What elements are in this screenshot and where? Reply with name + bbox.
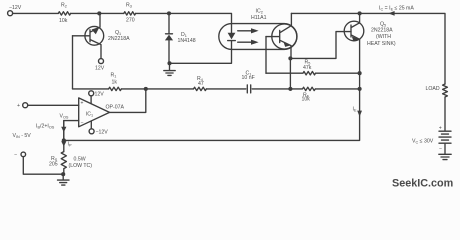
svg-text:VIN - 5V: VIN - 5V [13,133,32,139]
svg-text:−12V: −12V [96,129,109,135]
junction node RS bottom [61,172,65,176]
svg-text:1N4148: 1N4148 [178,38,196,44]
current arrow Ic on rail [388,11,394,16]
svg-text:1k: 1k [112,79,118,85]
svg-text:Q1: Q1 [115,30,121,36]
svg-text:−: − [81,120,84,126]
svg-text:H11A1: H11A1 [251,15,267,21]
opto-coupler IC2 stadium [219,24,297,50]
resistor R1 [109,87,122,90]
svg-text:−: − [439,146,442,152]
svg-text:+: + [17,103,20,109]
svg-text:+: + [439,126,442,132]
wire main row [73,88,291,90]
svg-text:270: 270 [126,18,135,24]
junction node rail D1 [167,11,171,15]
svg-text:VOS: VOS [60,114,69,120]
Q5 emitter arrow [352,36,359,41]
resistor R4 [194,87,207,90]
current arrow IE [357,111,362,117]
junction node rail Q1 [97,11,101,15]
svg-text:R1: R1 [111,73,117,79]
svg-text:Q5: Q5 [380,21,386,27]
junction node feedback [62,138,66,142]
resistor R5 [266,72,360,75]
wire top rail right [291,13,445,84]
diode D1 triangle [165,35,173,41]
wire inverting input [64,121,79,141]
junction node main wire opto [288,87,292,91]
terminal op-amp +12V [89,91,94,96]
opto arrows [238,31,252,42]
svg-text:10k: 10k [302,97,311,103]
resistor R2 [58,12,70,15]
svg-text:+: + [81,101,84,107]
current arrow IB/2+IOS [61,127,66,133]
svg-text:R3: R3 [126,3,132,9]
opto LED [228,40,236,42]
diode D1 [166,13,173,63]
terminal - input [21,152,26,157]
svg-text:2N2218A: 2N2218A [108,36,130,42]
opto LED triangle [228,33,236,40]
svg-text:−12V: −12V [9,5,22,11]
svg-text:10 nF: 10 nF [242,75,255,81]
wire opto emitter to Q5 base [290,32,351,59]
opto phototransistor [272,24,297,49]
resistor RS [61,152,66,175]
svg-text:12V: 12V [95,91,105,97]
svg-text:−: − [14,152,17,158]
wire top rail left [13,13,232,33]
transistor Q5 [344,21,364,41]
terminal + input [23,103,28,108]
svg-text:10k: 10k [59,18,68,24]
capacitor C1 [247,85,250,93]
wire D1 ground node to LED cathode [170,41,232,63]
svg-text:R2: R2 [61,3,67,9]
wire op-amp power bottom [90,121,92,129]
opto arrow heads [251,28,259,33]
junction node D1 ground [167,61,171,65]
junction node opto emitter [288,56,292,60]
ground battery [439,154,451,159]
junction node R6 right [358,87,362,91]
terminal op-amp -12V [89,129,94,134]
wire inverting node down [63,121,65,152]
wire negative terminal [23,157,63,175]
svg-text:(LOW TC): (LOW TC) [69,163,93,169]
svg-text:IC1: IC1 [86,112,93,118]
wire opto emitter down to main wire [289,58,291,89]
svg-text:HEAT SINK): HEAT SINK) [367,41,396,47]
junction node R5 right [358,71,362,75]
svg-text:12V: 12V [95,66,105,72]
svg-text:205: 205 [49,161,58,167]
svg-text:IC = IE ≤ 25 mA: IC = IE ≤ 25 mA [379,5,414,11]
terminal -12V [8,11,13,16]
junction node rail Q5 [358,11,362,15]
svg-text:IP: IP [68,142,72,148]
svg-text:VC ≤ 30V: VC ≤ 30V [412,138,434,144]
current arrow IP [61,141,66,146]
svg-text:OP-07A: OP-07A [106,104,125,110]
svg-text:LOAD: LOAD [426,86,440,92]
ground [164,63,175,75]
wire non-inverting input [28,104,79,106]
resistor LOAD [443,84,448,131]
svg-text:IC2: IC2 [256,9,263,15]
wire Q5 emitter down and feedback to inverting node [64,39,360,140]
svg-text:(WITH: (WITH [376,34,391,40]
op-amp U1 OP-07A [79,98,110,127]
svg-text:2N2218A: 2N2218A [371,27,393,33]
svg-text:IE: IE [353,107,357,113]
wire op-amp power top [90,96,92,104]
svg-text:47: 47 [198,81,204,87]
resistor R3 [124,12,136,15]
opto emitter arrow [283,42,290,47]
transistor Q1 [85,26,104,45]
svg-text:SeekIC.com: SeekIC.com [392,178,453,190]
Q1 emitter arrow [92,27,100,34]
junction node op-amp output [144,87,148,91]
ground RS [58,174,70,185]
wire op-amp output [110,89,146,113]
svg-text:47k: 47k [303,65,312,71]
svg-text:0.5W: 0.5W [74,156,86,162]
terminal 12V Q1 collector [99,59,104,64]
battery B1 [439,131,451,154]
resistor R6 [290,87,359,90]
wire opto base riser [265,37,267,74]
wire Q1 base riser [72,36,74,89]
svg-text:IB/2+IOS: IB/2+IOS [36,123,55,129]
